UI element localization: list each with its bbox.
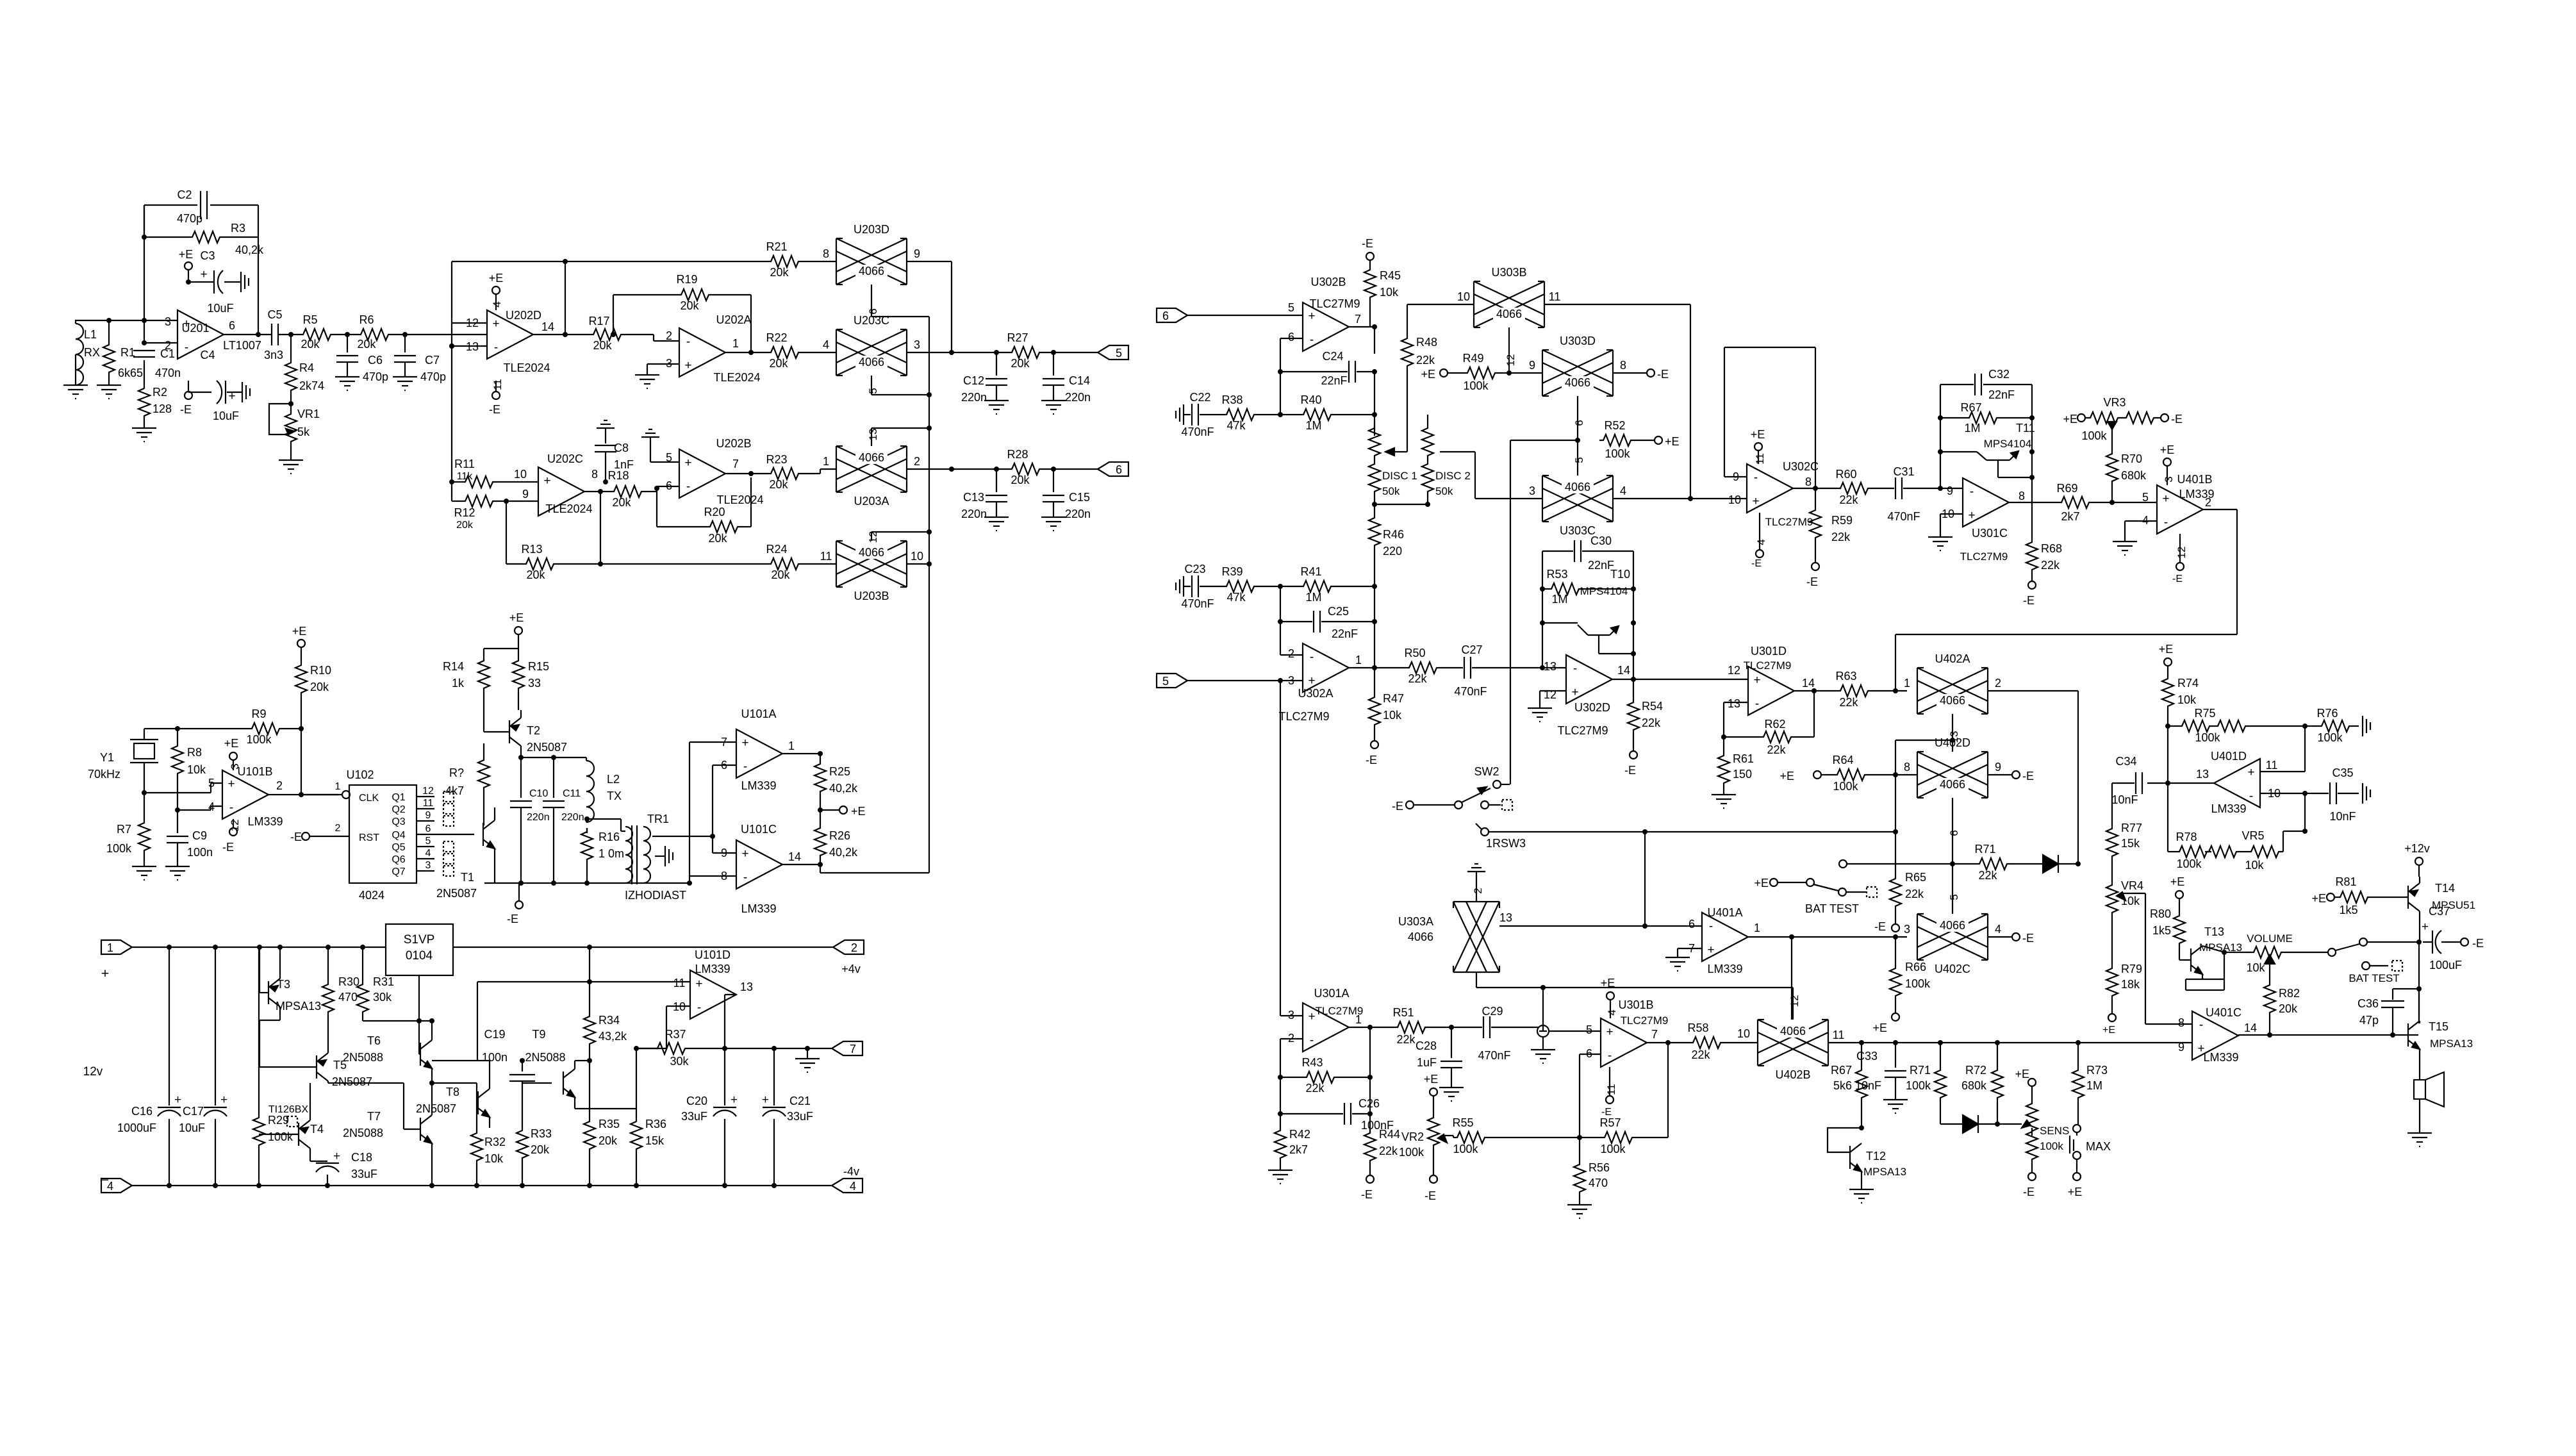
svg-text:5: 5 [2142, 491, 2149, 504]
svg-text:R73: R73 [2086, 1064, 2108, 1077]
svg-text:4066: 4066 [859, 265, 884, 277]
wire vr5 link [2283, 793, 2305, 852]
op-amp U302D [1544, 655, 1630, 737]
resistor R74 [2162, 675, 2199, 726]
svg-text:+E: +E [1424, 1073, 1439, 1086]
inductor L2 TX [586, 757, 622, 822]
svg-text:100k: 100k [1833, 780, 1858, 793]
transistor T10 [1578, 568, 1633, 654]
svg-text:+E: +E [224, 737, 239, 750]
svg-text:U101A: U101A [741, 707, 776, 720]
power -E [222, 819, 241, 854]
resistor R67b [1831, 1043, 1867, 1124]
svg-text:MPSA13: MPSA13 [276, 1000, 321, 1013]
svg-text:-E: -E [1366, 754, 1377, 766]
wire down [1791, 937, 1792, 1020]
node [1507, 370, 1512, 376]
svg-text:TLE2024: TLE2024 [545, 502, 592, 515]
svg-text:R23: R23 [766, 453, 787, 466]
node [598, 561, 603, 567]
text pin13 [867, 429, 879, 441]
node [1859, 1040, 2081, 1045]
svg-text:-: - [1573, 662, 1577, 675]
node [587, 979, 592, 984]
svg-text:_: _ [100, 1166, 108, 1181]
volume arrow [2265, 955, 2275, 981]
svg-text:R16: R16 [599, 831, 620, 843]
svg-text:R41: R41 [1300, 565, 1321, 578]
wire pin13 [1724, 702, 1748, 737]
svg-text:50k: 50k [1382, 485, 1400, 497]
capacitor C28 [1416, 1027, 1462, 1088]
svg-text:10: 10 [1737, 1027, 1750, 1040]
svg-text:22k: 22k [1408, 672, 1427, 685]
svg-text:TLC27M9: TLC27M9 [1278, 710, 1329, 723]
svg-text:33uF: 33uF [681, 1110, 707, 1123]
svg-text:40,2k: 40,2k [829, 846, 858, 859]
svg-text:+: + [227, 777, 235, 791]
wire [689, 853, 736, 876]
op-amp U301D [1728, 645, 1815, 715]
capacitor C19 [482, 1028, 535, 1083]
svg-text:R79: R79 [2121, 963, 2142, 975]
svg-text:3: 3 [165, 315, 171, 328]
svg-text:+: + [1308, 674, 1315, 688]
svg-text:22nF: 22nF [1332, 627, 1358, 640]
svg-text:5: 5 [1288, 301, 1294, 314]
svg-text:5: 5 [1116, 347, 1122, 360]
svg-text:SW2: SW2 [1474, 765, 1499, 778]
ground [1528, 708, 1552, 722]
resistor R30 [322, 947, 359, 1038]
svg-text:680k: 680k [2121, 469, 2147, 482]
wire pin3 out [907, 352, 1008, 353]
node [429, 1080, 434, 1188]
svg-text:680k: 680k [1961, 1079, 1987, 1092]
resistor R3 [188, 222, 264, 256]
wire R71 row [1847, 863, 2078, 864]
wire [144, 360, 145, 385]
svg-text:2: 2 [1995, 677, 2001, 690]
svg-text:+E: +E [851, 805, 866, 818]
capacitor C33 [1855, 1043, 1906, 1100]
svg-text:6: 6 [1688, 918, 1695, 931]
power -E [1424, 1175, 1437, 1202]
capacitor C26 [1280, 1097, 1394, 1132]
svg-text:100k: 100k [1399, 1146, 1424, 1159]
svg-text:U302B: U302B [1310, 276, 1346, 288]
svg-text:+: + [492, 317, 499, 331]
resistor R25 [814, 760, 858, 796]
resistor R26 [814, 824, 858, 860]
analog switch U203C [823, 314, 920, 376]
svg-text:C36: C36 [2357, 997, 2379, 1010]
diode D2 [1940, 1115, 1997, 1133]
svg-text:470nF: 470nF [1478, 1049, 1510, 1062]
op-amp U202C [522, 452, 598, 516]
resistor R72 [1961, 1043, 2003, 1124]
svg-text:+E: +E [489, 272, 504, 285]
node [1950, 738, 1955, 743]
ground [1041, 517, 1066, 531]
op-amp U401C [2178, 1006, 2257, 1064]
resistor R70 [2106, 450, 2147, 502]
resistor R56 [1574, 1137, 1610, 1205]
pot VR4 [2106, 879, 2145, 1024]
svg-text:MPSA13: MPSA13 [1863, 1166, 1906, 1178]
svg-text:2: 2 [666, 329, 672, 342]
svg-text:20k: 20k [593, 339, 612, 352]
node [1051, 467, 1056, 472]
transistor T5 [317, 1053, 372, 1088]
node [818, 751, 823, 756]
resistor R24 [766, 543, 836, 581]
wire [1259, 586, 1300, 587]
power -E [1366, 741, 1378, 766]
svg-text:9: 9 [1529, 359, 1535, 372]
svg-text:C34: C34 [2115, 755, 2136, 768]
svg-text:C6: C6 [368, 354, 383, 367]
wire [586, 819, 625, 831]
svg-text:+E: +E [1421, 368, 1435, 381]
svg-text:U202A: U202A [716, 313, 751, 326]
power +E [2068, 1173, 2083, 1198]
wire fb U302C [1724, 347, 1815, 488]
node [1789, 934, 1898, 939]
resistor R59 [1810, 488, 1853, 563]
svg-text:C23: C23 [1184, 563, 1205, 575]
wire [2093, 502, 2157, 503]
node [213, 945, 218, 1188]
power +12v [2404, 842, 2430, 877]
svg-text:R39: R39 [1221, 565, 1243, 578]
node [142, 726, 180, 795]
svg-text:100k: 100k [1905, 977, 1931, 990]
wire stem D [1952, 798, 1953, 864]
svg-text:100k: 100k [1600, 1143, 1626, 1155]
wire [533, 261, 590, 335]
resistor R81 [2335, 875, 2408, 916]
inductor L1 [76, 324, 100, 385]
node [449, 343, 454, 349]
svg-text:1: 1 [1904, 677, 1910, 690]
resistor R14 [443, 657, 490, 724]
svg-text:R5: R5 [302, 313, 317, 326]
op-amp U301B [1586, 998, 1668, 1067]
svg-text:100k: 100k [2040, 1140, 2063, 1152]
svg-text:R58: R58 [1687, 1022, 1708, 1034]
wire [1187, 315, 1303, 316]
op-amp U101D [673, 948, 753, 1019]
svg-text:-E: -E [1806, 575, 1818, 588]
svg-text:C14: C14 [1069, 374, 1090, 387]
svg-text:C29: C29 [1482, 1005, 1503, 1018]
ground [1928, 537, 1953, 550]
svg-text:20k: 20k [1011, 474, 1030, 486]
capacitor C13 [961, 469, 1007, 520]
node [1540, 586, 1636, 625]
capacitor C35 [2305, 766, 2359, 823]
svg-text:C10: C10 [529, 788, 548, 799]
svg-text:10k: 10k [2121, 895, 2140, 907]
wire [188, 281, 214, 283]
wire out7 [1647, 1042, 1689, 1043]
resistor R64 [1832, 754, 1918, 793]
pot VR3 [2063, 396, 2183, 450]
node [654, 486, 659, 491]
transformer TR1 [625, 813, 686, 902]
svg-text:2k74: 2k74 [299, 379, 324, 392]
svg-text:22k: 22k [1767, 743, 1786, 756]
svg-text:U203A: U203A [854, 495, 889, 508]
svg-text:T15: T15 [2429, 1020, 2448, 1033]
svg-text:10: 10 [514, 468, 527, 481]
analog switch U402C [1904, 914, 2001, 975]
svg-text:C3: C3 [200, 249, 215, 262]
svg-text:1: 1 [788, 740, 795, 752]
resistor R? [445, 743, 490, 825]
svg-text:Y1: Y1 [100, 751, 114, 764]
svg-text:-E: -E [2472, 937, 2484, 950]
transistor T6 [343, 1021, 432, 1083]
capacitor C21 [762, 1048, 813, 1186]
node [818, 807, 823, 813]
svg-text:4066: 4066 [1565, 481, 1590, 493]
wire out8 u301c [2009, 502, 2058, 503]
resistor R17 [588, 315, 625, 352]
wire [1988, 936, 2012, 938]
wire mid [328, 1083, 477, 1129]
svg-text:40,2k: 40,2k [829, 782, 858, 795]
svg-text:2N5087: 2N5087 [527, 741, 567, 754]
svg-text:C22: C22 [1189, 391, 1210, 404]
svg-text:R63: R63 [1835, 670, 1856, 682]
svg-text:+E: +E [292, 625, 307, 638]
resistor R75 [2168, 707, 2318, 744]
wire -rail [132, 1185, 832, 1186]
transistor T14 [2408, 877, 2475, 943]
svg-text:5k: 5k [297, 426, 310, 438]
svg-text:R15: R15 [528, 660, 549, 673]
wire [108, 377, 110, 385]
wire out14 [1794, 690, 1837, 691]
power +E [1872, 1013, 1899, 1034]
svg-text:R72: R72 [1965, 1064, 1986, 1077]
svg-text:100k: 100k [1463, 379, 1489, 392]
svg-text:20k: 20k [357, 338, 376, 351]
svg-text:R50: R50 [1404, 647, 1425, 659]
node [257, 945, 283, 950]
svg-text:T3: T3 [277, 978, 290, 991]
wire out1 [1349, 667, 1405, 668]
node [1688, 496, 1693, 501]
svg-text:100k: 100k [2176, 857, 2202, 870]
node [299, 792, 304, 797]
svg-text:3: 3 [2163, 476, 2175, 482]
text pin12 [1505, 354, 1517, 367]
svg-text:4: 4 [1995, 923, 2001, 936]
svg-text:+E: +E [2102, 1025, 2115, 1036]
ground [2407, 1133, 2432, 1146]
pot DISC1 [1369, 424, 1417, 504]
svg-text:T13: T13 [2204, 925, 2224, 938]
wire [290, 395, 292, 404]
wire [871, 428, 929, 446]
wire pin8 [2145, 1023, 2192, 1025]
svg-text:R22: R22 [766, 331, 787, 344]
svg-text:22k: 22k [1305, 1082, 1325, 1095]
svg-text:C11: C11 [563, 788, 581, 799]
wire [290, 446, 292, 460]
svg-text:470p: 470p [177, 212, 202, 225]
svg-text:+: + [1752, 495, 1759, 508]
capacitor C17 [179, 947, 227, 1186]
svg-text:3n3: 3n3 [264, 349, 283, 361]
svg-text:BAT TEST: BAT TEST [2349, 972, 2399, 984]
svg-text:U102: U102 [346, 768, 374, 781]
node [186, 279, 191, 285]
svg-text:VR1: VR1 [297, 408, 320, 420]
svg-text:C9: C9 [192, 829, 207, 842]
svg-text:R10: R10 [310, 664, 331, 677]
analog switch U303B [1457, 266, 1560, 327]
svg-text:R51: R51 [1392, 1006, 1414, 1019]
analog switch U402B [1758, 1020, 1844, 1081]
svg-text:C24: C24 [1322, 350, 1343, 363]
svg-text:3: 3 [425, 860, 431, 871]
wire to sens [1997, 1123, 2022, 1125]
svg-text:R47: R47 [1383, 692, 1404, 705]
svg-text:L2: L2 [607, 773, 620, 786]
svg-text:+E: +E [2160, 443, 2175, 456]
switch BAT TEST 2 [2349, 961, 2402, 984]
svg-text:U401C: U401C [2206, 1006, 2242, 1019]
wire [335, 334, 357, 335]
svg-text:6: 6 [1288, 331, 1294, 343]
svg-text:9: 9 [914, 247, 920, 260]
svg-text:R45: R45 [1380, 269, 1401, 282]
vreg S1VP0104 [386, 924, 453, 975]
power +E [820, 805, 866, 818]
svg-text:U401D: U401D [2211, 750, 2247, 763]
switch BAT TEST [1754, 877, 1877, 915]
resistor R82 [2264, 981, 2300, 1033]
svg-text:20k: 20k [301, 338, 320, 351]
power +E [509, 611, 524, 649]
power +E [1601, 977, 1618, 1018]
svg-text:R27: R27 [1007, 331, 1028, 344]
svg-text:5: 5 [425, 836, 431, 847]
svg-text:13: 13 [867, 429, 879, 441]
svg-text:CLK: CLK [359, 793, 379, 804]
svg-text:12: 12 [229, 820, 241, 832]
svg-text:470nF: 470nF [1181, 426, 1214, 438]
svg-text:13: 13 [466, 340, 479, 353]
wire T8c [477, 982, 690, 1061]
ground [132, 866, 156, 880]
text pin10 [1737, 1027, 1750, 1040]
svg-text:10k: 10k [1383, 709, 1402, 722]
chassis [2363, 716, 2370, 736]
svg-text:VR4: VR4 [2121, 879, 2143, 892]
svg-text:+E: +E [2063, 413, 2077, 426]
svg-text:2N5087: 2N5087 [332, 1075, 372, 1088]
svg-text:100k: 100k [246, 733, 272, 746]
svg-text:MAX: MAX [2086, 1140, 2111, 1153]
svg-text:11: 11 [2266, 759, 2278, 772]
svg-text:1RSW3: 1RSW3 [1486, 837, 1526, 850]
svg-text:1: 1 [823, 455, 829, 468]
svg-text:-: - [697, 1001, 701, 1014]
svg-text:4066: 4066 [859, 451, 884, 464]
svg-text:3: 3 [1904, 923, 1910, 936]
resistor R60 [1835, 468, 1872, 506]
power -E [489, 379, 504, 416]
svg-text:C13: C13 [963, 491, 984, 504]
wire U102 Q1 [392, 786, 454, 803]
svg-text:C37: C37 [2429, 905, 2450, 918]
pot VR1 [269, 404, 320, 446]
ic U102 4024 [346, 768, 417, 902]
svg-text:R30: R30 [338, 975, 359, 988]
svg-text:TX: TX [607, 790, 622, 802]
svg-text:R6: R6 [359, 313, 374, 326]
svg-text:47k: 47k [1226, 419, 1246, 432]
node [1449, 1025, 1454, 1030]
svg-text:R43: R43 [1301, 1056, 1323, 1069]
svg-text:+: + [1571, 686, 1578, 699]
svg-text:12: 12 [1788, 995, 1801, 1007]
svg-text:R69: R69 [2056, 482, 2077, 495]
capacitor C29 [1451, 1005, 1539, 1062]
svg-text:30k: 30k [670, 1055, 689, 1068]
resistor R46 [1369, 504, 1404, 586]
op-amp U202A [666, 313, 761, 384]
node [142, 340, 147, 345]
node [927, 392, 932, 397]
node [1575, 438, 1580, 443]
svg-text:-: - [743, 760, 747, 773]
open terminal [1839, 860, 1847, 868]
svg-text:1k: 1k [452, 677, 465, 690]
svg-text:LM339: LM339 [2211, 802, 2246, 815]
svg-text:+E: +E [179, 248, 194, 261]
svg-text:T12: T12 [1866, 1150, 1886, 1162]
svg-text:+: + [731, 1093, 738, 1107]
power +E [292, 625, 307, 661]
svg-text:U401A: U401A [1707, 906, 1742, 919]
power -E [1601, 1067, 1617, 1118]
svg-text:3: 3 [914, 338, 920, 351]
svg-text:+: + [1968, 509, 1975, 522]
wire out7 [1349, 327, 1375, 354]
svg-text:+: + [200, 268, 207, 281]
wire t15c [2418, 988, 2420, 1019]
node [1893, 688, 1898, 693]
svg-text:4066: 4066 [1408, 931, 1433, 943]
resistor R37 [636, 1028, 725, 1068]
svg-text:C21: C21 [789, 1095, 811, 1107]
svg-text:U303A: U303A [1398, 915, 1433, 928]
svg-text:U203D: U203D [854, 223, 889, 236]
svg-text:6: 6 [1116, 463, 1122, 476]
wire pin10 out [907, 563, 929, 565]
svg-text:R14: R14 [443, 660, 464, 673]
node [1859, 1125, 1864, 1130]
node [360, 945, 365, 950]
capacitor C37 [2422, 905, 2462, 972]
svg-text:5: 5 [1162, 675, 1169, 688]
